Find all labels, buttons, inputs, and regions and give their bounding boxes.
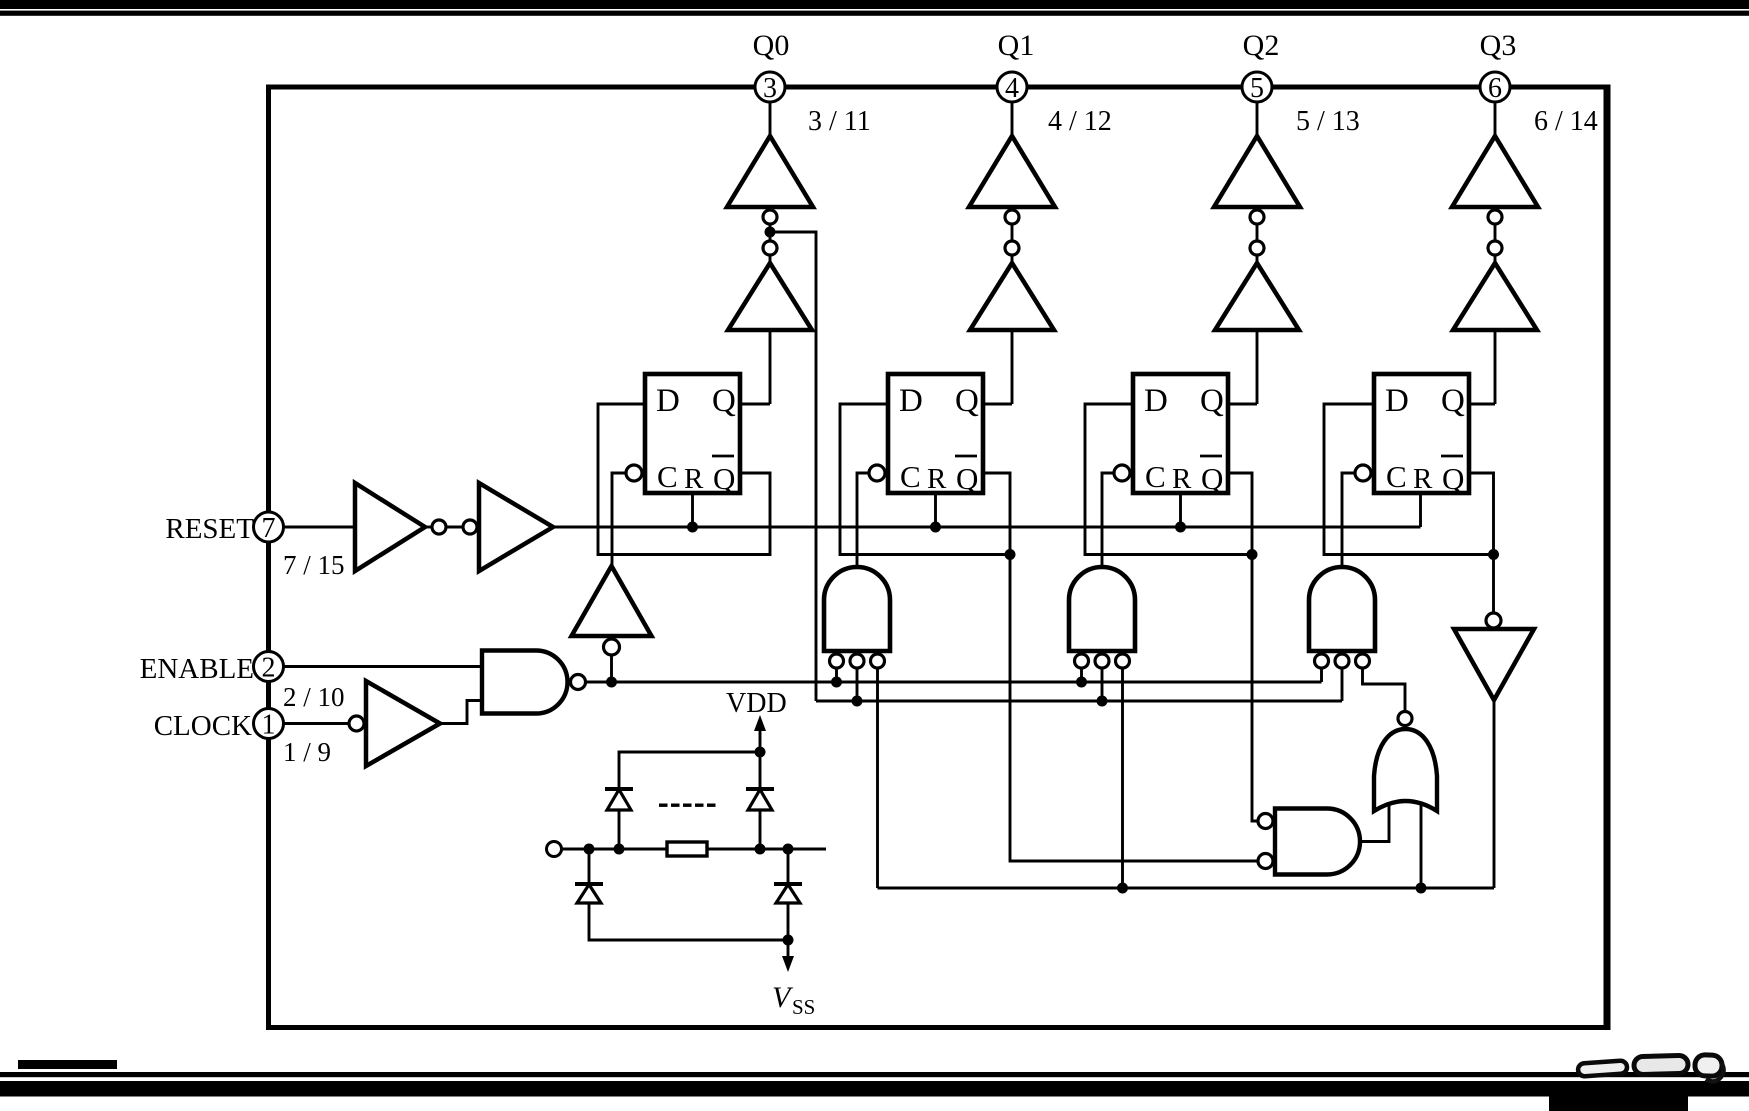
wire Q0 tap between bubbles [770,232,816,701]
svg-text:1 / 9: 1 / 9 [283,737,331,767]
wire FF1 Q output [740,403,770,406]
svg-text:R: R [1172,463,1192,495]
bubble AND3 in3 [1356,654,1370,668]
svg-text:7: 7 [262,513,276,544]
svg-text:6 / 14: 6 / 14 [1534,106,1598,137]
wire FF3 C [1102,473,1114,567]
resistor [667,842,707,856]
bubble Q2 a [1250,210,1264,224]
D flip-flop FF4 [1374,374,1469,496]
pin 5 circle [1242,72,1272,102]
clock-to-C1 buffer [572,566,652,636]
bubble AND4 in2 [1258,854,1273,869]
svg-text:2: 2 [262,653,276,684]
wire inverter out [1493,700,1496,888]
bubble clock input [349,716,364,731]
svg-text:4: 4 [1005,73,1019,104]
diode D4 [774,884,802,903]
bubble clock buffer [604,639,620,655]
wire FF1 C [612,473,626,566]
wire clock buffer to NAND [440,701,482,724]
svg-text:5 / 13: 5 / 13 [1296,106,1360,137]
svg-text:R: R [684,463,704,495]
bubble Q0 a [763,210,777,224]
wire pin6 to buffer Q3 [1494,102,1497,140]
top scan bar thin [0,11,1749,16]
wire pin3 to buffer Q0 [769,102,772,140]
bubble FF2 C [869,465,885,481]
scribble 3 [1695,1055,1723,1077]
protection VDD branch [759,723,762,849]
buffer Q3 output [1452,136,1538,207]
VDD arrow [754,715,766,731]
buffer Q0 output [727,136,813,207]
bubble reset mid 2 [463,520,477,534]
wire pin4 to buffer Q1 [1011,102,1014,140]
pin 4 circle [997,72,1027,102]
pin 3 circle [755,72,785,102]
bubble inverter input [1486,613,1501,628]
D flip-flop FF3 [1133,374,1228,496]
wire FF3 R [1179,493,1182,527]
node q3 AND2 [1117,883,1128,894]
svg-text:Q1: Q1 [998,29,1035,62]
svg-text:D: D [899,383,923,419]
bubble Q3 b [1488,241,1502,255]
AND gate 1 [824,567,890,651]
wire buffer2 Q3 to FF4 Q [1494,330,1497,404]
bubble AND2 in1 [1075,654,1089,668]
protection upper-left branch [619,752,760,849]
bubble AND3 in1 [1315,654,1329,668]
svg-text:Q2: Q2 [1243,29,1280,62]
SHAPES [355,136,1538,766]
wire Q0 gate line y701 [816,700,1342,703]
buffer Q0 second [728,263,812,330]
D flip-flop FF1 [645,374,740,496]
bubble Q0 b [763,241,777,255]
node clock AND2 [1076,677,1087,688]
wire bubble stubs Q3 [1494,224,1497,241]
buffer Q2 second [1215,263,1299,330]
wire enable [284,665,483,668]
wire FF4 R [1419,493,1422,527]
bubble FF3 C [1114,465,1130,481]
svg-text:Q: Q [713,461,735,496]
wire pin5 to buffer Q2 [1256,102,1259,140]
bubble FF4 C [1355,465,1371,481]
node prot 2 [614,844,625,855]
wire bubble stubs Q2 [1256,224,1259,241]
svg-text:1: 1 [262,710,276,741]
svg-text:RESET: RESET [165,513,254,545]
svg-text:Q3: Q3 [1480,29,1517,62]
wire AND4 out to OR [1360,790,1389,842]
bubble AND3 in2 [1335,654,1349,668]
wire FF1 R [691,493,694,527]
AND gate 3 [1309,567,1375,651]
wire FF4 D loop [1324,404,1494,555]
svg-text:Q: Q [1442,461,1464,496]
pin 2 circle [254,652,284,682]
svg-text:R: R [927,463,947,495]
wire AND2 input stubs [1080,668,1083,682]
NAND gate clock/enable [482,651,568,714]
svg-text:Q: Q [955,383,979,419]
wire FF4 Q output [1469,403,1495,406]
wire FF2 R [934,493,937,527]
node prot 3 [755,844,766,855]
svg-text:VDD: VDD [726,688,787,719]
svg-text:D: D [656,383,680,419]
svg-text:C: C [1145,459,1166,494]
buffer Q1 second [970,263,1054,330]
BUBBLES [349,210,1502,869]
protection input line [562,848,827,851]
AND gate 4 (2-input) [1275,809,1360,875]
wire FF3 D loop [1085,404,1252,555]
wire buffer2 Q2 to FF3 Q [1256,330,1259,404]
svg-text:Q: Q [712,383,736,419]
svg-text:2 / 10: 2 / 10 [283,682,345,712]
node prot vdd [755,747,766,758]
protection lower-left branch [589,849,788,940]
svg-text:Q0: Q0 [753,29,790,62]
wire bubble stubs Q1 [1011,224,1014,241]
svg-text:CLOCK: CLOCK [154,710,252,742]
bubble AND2 in3 [1116,654,1130,668]
PINS [254,72,1511,739]
IC border [269,87,1609,1028]
pin 7 circle [254,512,284,542]
wire FF3 Q output [1228,403,1257,406]
wire OR input right [1420,790,1423,888]
wire FF4 C [1342,473,1355,567]
svg-text:Q: Q [1441,383,1465,419]
wire reset bus [284,526,356,529]
node prot 4 [783,844,794,855]
node prot vss [783,935,794,946]
input terminal [547,842,562,857]
wire FF2 Q output [983,403,1012,406]
wire FF2 C [857,473,869,567]
wire buffer2 Q0 to FF1 Q [769,330,772,404]
svg-text:5: 5 [1250,73,1264,104]
wire buffer2 Q1 to FF2 Q [1011,330,1014,404]
wire FF2 D loop [840,404,1010,555]
bubble AND4 in1 [1258,814,1273,829]
wire clock pin to bubble [284,722,350,725]
scribble 3 tail [1706,1062,1724,1082]
bubble AND1 in1 [830,654,844,668]
pin 1 circle [254,709,284,739]
svg-text:C: C [900,459,921,494]
node FF4 loop [1488,549,1499,560]
reset buffer 2 [479,483,553,571]
reset buffer 1 [355,483,425,571]
bubble AND1 in3 [871,654,885,668]
top scan bar thick [0,0,1749,9]
pin 6 circle [1480,72,1510,102]
svg-text:Q: Q [956,461,978,496]
bubble Q1 b [1005,241,1019,255]
bubble NAND output [571,675,586,690]
svg-text:R: R [1413,463,1433,495]
bubble AND1 in2 [850,654,864,668]
bubble Q1 a [1005,210,1019,224]
node FF2 R [930,522,941,533]
svg-text:3 / 11: 3 / 11 [808,106,871,137]
svg-text:3: 3 [763,73,777,104]
wire FF1 D loop [598,404,770,555]
scribble 1 [1578,1060,1628,1076]
svg-text:D: D [1144,383,1168,419]
node clock buf [606,677,617,688]
wire Q3 bus y888 [878,887,1495,890]
svg-text:SS: SS [792,995,815,1019]
bubble Q3 a [1488,210,1502,224]
node prot 1 [584,844,595,855]
svg-text:7 / 15: 7 / 15 [283,550,345,580]
wire bubble stubs Q0 [769,224,772,241]
diode D1 [605,789,633,810]
bubble reset mid 1 [432,520,446,534]
svg-text:ENABLE: ENABLE [140,653,254,685]
dashes [659,804,716,807]
svg-text:C: C [657,459,678,494]
node FF1 R [687,522,698,533]
bubble Q2 b [1250,241,1264,255]
node FF3 R [1175,522,1186,533]
AND gate 2 [1069,567,1135,651]
svg-text:Q: Q [1200,383,1224,419]
bubble OR output [1398,712,1412,726]
VSS arrow [782,956,794,972]
wire FF4 Qbar to inverter [1492,555,1495,614]
D flip-flop FF2 [888,374,983,496]
svg-text:C: C [1386,459,1407,494]
svg-text:Q: Q [1201,461,1223,496]
node Q0 tap [765,227,776,238]
node q0 AND1 [852,696,863,707]
diode D2 [746,789,774,810]
wire reset bubble stubs [425,526,433,529]
clock buffer [366,681,440,766]
wire AND1 input stubs [835,668,838,682]
node q3 OR [1416,883,1427,894]
wire FF3 Qbar to AND4 [1252,555,1258,822]
wire clock bus [586,681,1322,684]
scribble 2 [1634,1055,1688,1074]
svg-text:6: 6 [1488,73,1502,104]
bubble AND2 in2 [1095,654,1109,668]
buffer Q2 output [1214,136,1300,207]
buffer Q3 second [1453,263,1537,330]
wire clock buffer stub [610,655,613,682]
OR gate [1374,729,1437,811]
svg-text:4 / 12: 4 / 12 [1048,106,1112,137]
wire FF2 Qbar to AND4 [1010,555,1258,862]
diode D3 [575,884,603,903]
svg-text:D: D [1385,383,1409,419]
node clock AND1 [831,677,842,688]
BOTTOM BARS [18,1060,117,1069]
bubble FF1 C [626,465,642,481]
node q0 AND2 [1097,696,1108,707]
node FF3 loop [1247,549,1258,560]
buffer Q1 output [969,136,1055,207]
inverter Q3bar [1454,629,1534,700]
protection lower-right branch [787,849,790,958]
node FF2 loop [1005,549,1016,560]
wire AND3 input stubs [1320,668,1323,682]
